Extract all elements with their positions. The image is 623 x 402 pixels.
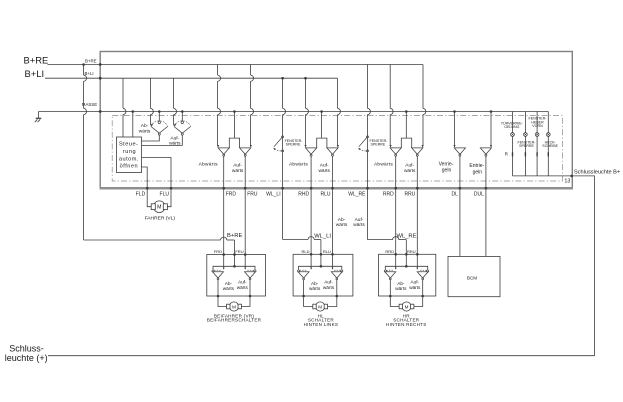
svg-text:Schlussleuchte B+: Schlussleuchte B+ bbox=[574, 169, 620, 175]
svg-text:HINTEN LINKS: HINTEN LINKS bbox=[304, 322, 339, 327]
svg-text:SCHEIBE: SCHEIBE bbox=[542, 144, 558, 148]
svg-text:BEIFAHRERSCHALTER: BEIFAHRERSCHALTER bbox=[207, 318, 262, 323]
svg-text:13: 13 bbox=[564, 179, 570, 185]
svg-text:M: M bbox=[405, 304, 409, 309]
resistor R (Tuerverriegelung) bbox=[512, 152, 513, 156]
svg-text:wärts: wärts bbox=[336, 222, 348, 228]
driver stage RRD (Abwaerts rear right) bbox=[390, 148, 401, 154]
terminal FRU bbox=[244, 187, 247, 190]
svg-text:öffnen: öffnen bbox=[120, 163, 138, 169]
switch box HL HINTEN LINKS bbox=[293, 254, 353, 296]
svg-text:SPERRE: SPERRE bbox=[371, 143, 386, 147]
motor switch box BEIFAHRER (VR) bbox=[229, 302, 238, 311]
svg-text:RRU: RRU bbox=[404, 192, 415, 198]
svg-text:Auf-: Auf- bbox=[170, 136, 179, 142]
switch Abwaerts (driver) bbox=[158, 121, 160, 123]
Steuerung autom. oeffnen control box bbox=[117, 137, 142, 173]
module bottom terminal rail bbox=[100, 187, 574, 190]
wire WL_RE from B+RE rail to terminal bbox=[367, 65, 369, 109]
svg-text:wärts: wärts bbox=[139, 128, 151, 134]
terminal DL bbox=[459, 187, 462, 190]
svg-text:RLD: RLD bbox=[301, 249, 309, 254]
terminal RRU bbox=[416, 187, 419, 190]
wire DUL stage to terminal bbox=[485, 156, 487, 188]
motor switch box HR HINTEN RECHTS bbox=[402, 302, 411, 311]
driver stage RHD (Abwaerts rear left) bbox=[306, 148, 317, 154]
svg-text:geln: geln bbox=[442, 167, 452, 173]
wire WL_LI from B+LI rail to terminal bbox=[282, 78, 284, 108]
wire RRU stage to terminal bbox=[416, 156, 418, 188]
switch Abwaerts bbox=[384, 270, 386, 272]
svg-text:Entrie-: Entrie- bbox=[469, 163, 484, 169]
wire FRU stage to terminal bbox=[244, 156, 246, 188]
wire DL to BCM bbox=[459, 188, 461, 256]
svg-text:autom.: autom. bbox=[119, 157, 139, 163]
wire RLU stage to terminal bbox=[332, 156, 334, 188]
junction MASSE to RH yoke bbox=[320, 110, 323, 113]
wire RLU to HL switch bbox=[332, 188, 334, 254]
svg-text:FLU: FLU bbox=[160, 192, 170, 198]
svg-text:RLU: RLU bbox=[320, 192, 330, 198]
lamp Tuerverriegelung bbox=[512, 112, 514, 133]
wire Steuerung to FLD terminal bbox=[142, 167, 148, 188]
yoke wire bbox=[299, 266, 342, 269]
svg-text:RRD: RRD bbox=[385, 249, 394, 254]
lamp Fensterheber vorn bbox=[524, 112, 526, 133]
wire RRD stage to terminal bbox=[395, 156, 397, 188]
svg-text:FAHRER (VL): FAHRER (VL) bbox=[145, 215, 176, 221]
svg-text:VORN: VORN bbox=[532, 124, 543, 128]
wire RRU to HR switch bbox=[416, 188, 418, 254]
svg-text:HINTEN RECHTS: HINTEN RECHTS bbox=[386, 322, 427, 327]
resistor R (Fenstersperre) bbox=[536, 152, 537, 156]
wire B+LI to RHD driver stage bbox=[305, 78, 307, 108]
svg-text:wärts: wärts bbox=[169, 141, 181, 147]
svg-text:FRD: FRD bbox=[226, 192, 237, 198]
motor FAHRER (VL) bbox=[147, 188, 151, 207]
svg-text:wärts: wärts bbox=[232, 168, 244, 174]
svg-text:Schluss-: Schluss- bbox=[9, 344, 44, 354]
driver stage FRD (Abwaerts front right) bbox=[218, 148, 229, 154]
svg-text:Auf-: Auf- bbox=[355, 217, 364, 223]
switch Aufwaerts bbox=[254, 270, 256, 272]
switch Aufwaerts (driver) bbox=[181, 121, 183, 123]
svg-text:wärts: wärts bbox=[237, 285, 249, 290]
switch Abwaerts bbox=[298, 270, 300, 272]
svg-text:WL_RE: WL_RE bbox=[397, 234, 417, 240]
svg-text:M: M bbox=[232, 304, 236, 309]
wire DUL to BCM bbox=[485, 188, 487, 256]
svg-text:Auf-: Auf- bbox=[320, 163, 329, 169]
wire FRD stage to terminal bbox=[223, 156, 225, 188]
svg-text:geln: geln bbox=[473, 169, 483, 175]
terminal RRD bbox=[394, 187, 397, 190]
svg-text:MASSE: MASSE bbox=[82, 102, 97, 107]
svg-text:Abwärts: Abwärts bbox=[199, 161, 218, 167]
resistor R (Heckscheibe) bbox=[548, 152, 549, 156]
ground MASSE wire bbox=[39, 111, 101, 113]
wire MASSE rail inside module bbox=[100, 111, 548, 113]
junction MASSE to DL stage bbox=[453, 110, 456, 113]
junction MASSE to Abwaerts switch pivot bbox=[158, 110, 161, 113]
yoke feed RH driver pair bbox=[317, 138, 327, 148]
svg-text:FRU: FRU bbox=[247, 192, 258, 198]
svg-text:RHD: RHD bbox=[298, 192, 309, 198]
terminal DUL bbox=[485, 187, 488, 190]
wire WL_LI to HL switch bbox=[282, 188, 284, 239]
wire RHD stage to terminal bbox=[310, 156, 312, 188]
wire Aufwaerts switch to Steuerung bbox=[142, 135, 183, 145]
switch Aufwaerts bbox=[341, 270, 343, 272]
wire B+LI rail inside module bbox=[100, 77, 337, 79]
terminal FLU bbox=[170, 187, 173, 190]
terminal WL_LI bbox=[281, 187, 284, 190]
svg-text:SPERRE: SPERRE bbox=[519, 144, 534, 148]
wire RHD to HL switch bbox=[310, 188, 312, 254]
svg-text:Auf-: Auf- bbox=[405, 163, 414, 169]
wire RRD to HR switch bbox=[395, 188, 397, 254]
svg-text:B+LI: B+LI bbox=[25, 68, 45, 79]
svg-text:Ab-: Ab- bbox=[141, 123, 149, 129]
wire WL_RE to HR switch bbox=[367, 188, 369, 239]
lamp Fenstersperre bbox=[536, 112, 538, 133]
driver stage RRU (Aufwaerts rear right) bbox=[412, 148, 423, 154]
svg-text:B+RE: B+RE bbox=[85, 58, 97, 63]
svg-text:DL: DL bbox=[451, 192, 458, 198]
svg-text:FRD: FRD bbox=[214, 249, 222, 254]
switch Abwaerts bbox=[212, 270, 214, 272]
switch box HR HINTEN RECHTS bbox=[379, 254, 436, 296]
ground symbol bbox=[35, 112, 42, 123]
junction MASSE to FR yoke bbox=[233, 110, 236, 113]
wires switch outputs to motor bbox=[217, 280, 219, 296]
svg-text:DUL: DUL bbox=[474, 192, 484, 198]
wire B+RE rail inside module bbox=[100, 64, 423, 66]
svg-text:Steue-: Steue- bbox=[119, 142, 138, 148]
switch box BEIFAHRER (VR) bbox=[207, 255, 266, 297]
wire Schlussleuchte B+ external bbox=[48, 176, 594, 356]
wire DL stage to terminal bbox=[459, 156, 461, 188]
yoke wire bbox=[385, 266, 427, 269]
svg-text:M: M bbox=[318, 304, 322, 309]
wire B+RE input bbox=[48, 64, 101, 66]
svg-text:FLD: FLD bbox=[136, 192, 146, 198]
driver stage FRU (Aufwaerts front right) bbox=[240, 148, 251, 154]
svg-text:Abwärts: Abwärts bbox=[374, 161, 393, 167]
svg-text:M: M bbox=[157, 205, 161, 211]
wire FRU to passenger switch bbox=[244, 188, 246, 254]
svg-text:WL_LI: WL_LI bbox=[266, 192, 280, 198]
terminal FRD bbox=[222, 187, 225, 190]
svg-text:Ab-: Ab- bbox=[338, 217, 346, 223]
svg-text:BCM: BCM bbox=[467, 275, 477, 280]
svg-text:FRU: FRU bbox=[235, 249, 243, 254]
terminal RLU bbox=[331, 187, 334, 190]
wire B+RE branch to passenger switch bbox=[82, 63, 85, 66]
svg-text:wärts: wärts bbox=[318, 168, 330, 174]
junction MASSE to Steuerung bbox=[132, 110, 135, 113]
wire B+RE to FRD driver stage bbox=[217, 65, 219, 76]
wires switch outputs to motor bbox=[389, 280, 391, 296]
wire B+RE to FRU driver stage bbox=[250, 65, 252, 76]
wire Abwaerts switch to Steuerung bbox=[142, 135, 160, 141]
svg-text:wärts: wärts bbox=[395, 286, 407, 291]
switch Aufwaerts bbox=[427, 270, 429, 272]
junction MASSE to Aufwaerts switch pivot bbox=[181, 110, 184, 113]
yoke feed RR driver pair bbox=[401, 138, 411, 148]
terminal FLD bbox=[146, 187, 149, 190]
svg-text:SPERRE: SPERRE bbox=[286, 143, 301, 147]
svg-text:RLU: RLU bbox=[323, 249, 331, 254]
junction MASSE to RR yoke bbox=[405, 110, 408, 113]
svg-text:leuchte (+): leuchte (+) bbox=[5, 353, 48, 363]
power window control module box bbox=[100, 52, 572, 189]
yoke feed FR driver pair bbox=[229, 138, 239, 148]
wire Steuerung to FLU terminal bbox=[142, 158, 172, 189]
svg-text:B+RE: B+RE bbox=[227, 233, 242, 239]
svg-text:wärts: wärts bbox=[404, 168, 416, 174]
wire B+LI input bbox=[45, 77, 100, 79]
switch Fenstersperre (left, on WL_LI wire) bbox=[282, 136, 284, 138]
wires switch outputs to motor bbox=[303, 280, 305, 296]
wire lamp common rail to pin 13 bbox=[513, 175, 573, 177]
junction MASSE to DUL stage bbox=[490, 110, 493, 113]
terminal WL_RE bbox=[366, 187, 369, 190]
switch Fenstersperre (right, on WL_RE wire) bbox=[367, 136, 369, 138]
wire B+RE rail end down to RRU driver stage bbox=[422, 65, 424, 109]
resistor R (Fensterheber vorn) bbox=[525, 152, 526, 156]
svg-text:wärts: wärts bbox=[409, 285, 421, 290]
motor switch box HL HINTEN LINKS bbox=[316, 302, 325, 311]
svg-text:WL_LI: WL_LI bbox=[314, 234, 331, 240]
svg-text:wärts: wärts bbox=[309, 286, 321, 291]
svg-text:GELUNG: GELUNG bbox=[504, 125, 519, 129]
svg-text:rung: rung bbox=[123, 149, 136, 155]
svg-text:RRU: RRU bbox=[407, 249, 416, 254]
wire B+LI to Aufwaerts switch bbox=[173, 78, 175, 108]
BCM box bbox=[448, 256, 500, 296]
wire B+RE to RRD driver stage bbox=[389, 65, 391, 109]
lamp Heckscheibe bbox=[547, 112, 549, 133]
svg-text:Abwärts: Abwärts bbox=[289, 161, 308, 167]
wire B+LI to Abwaerts switch bbox=[149, 78, 151, 108]
svg-text:RRD: RRD bbox=[383, 192, 394, 198]
svg-text:B+RE: B+RE bbox=[24, 54, 49, 65]
driver stage DL (Verriegeln) bbox=[454, 148, 465, 154]
svg-text:Auf-: Auf- bbox=[233, 163, 242, 169]
yoke wire bbox=[213, 266, 255, 269]
dash-dot switch assembly boundary bbox=[112, 116, 562, 181]
terminal RHD bbox=[310, 187, 313, 190]
driver stage RLU (Aufwaerts rear left) bbox=[327, 148, 338, 154]
svg-text:wärts: wärts bbox=[323, 285, 335, 290]
svg-text:wärts: wärts bbox=[353, 222, 365, 228]
driver stage DUL (Entriegeln) bbox=[480, 148, 491, 154]
wire FRD to passenger switch bbox=[223, 188, 225, 254]
wire B+LI rail end down to RLU driver stage bbox=[337, 78, 339, 108]
svg-text:wärts: wärts bbox=[223, 286, 235, 291]
svg-text:WL_RE: WL_RE bbox=[348, 192, 366, 198]
wire B+LI to Steuerung box bbox=[122, 78, 124, 108]
